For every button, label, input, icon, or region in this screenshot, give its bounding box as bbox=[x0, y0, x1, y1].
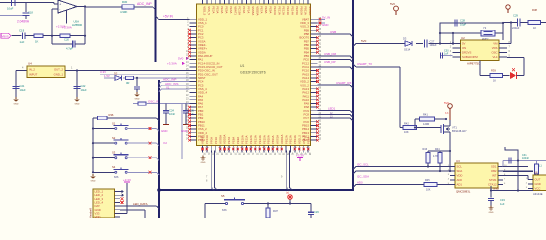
svg-text:PB13A: PB13A bbox=[289, 135, 293, 144]
svg-text:QMC5883L: QMC5883L bbox=[456, 190, 471, 194]
svg-text:PE9A: PE9A bbox=[236, 137, 240, 144]
svg-text:LM8500: LM8500 bbox=[72, 23, 83, 27]
svg-text:USB_DM: USB_DM bbox=[324, 52, 337, 56]
svg-text:C26: C26 bbox=[314, 210, 319, 214]
wire regulator output bbox=[65, 67, 193, 72]
capacitor C23 and ground bbox=[134, 78, 140, 101]
svg-text:+3.3V: +3.3V bbox=[296, 153, 304, 157]
svg-text:PE13A: PE13A bbox=[286, 6, 290, 15]
resistor R35 key pullup bbox=[93, 113, 159, 121]
svg-text:PE8A: PE8A bbox=[264, 6, 268, 13]
svg-text:VSS5A: VSS5A bbox=[251, 6, 255, 15]
svg-text:VDD: VDD bbox=[95, 215, 101, 218]
net label 1.5V bbox=[104, 74, 110, 78]
wire LED_DATA row bbox=[120, 202, 159, 209]
MCU top pins bbox=[203, 0, 313, 16]
ground at C33 bbox=[488, 206, 493, 214]
svg-text:R45: R45 bbox=[425, 179, 430, 182]
ground at C21 bbox=[13, 97, 18, 105]
svg-text:PE8A: PE8A bbox=[232, 137, 236, 144]
svg-text:5V0: 5V0 bbox=[361, 39, 367, 43]
svg-text:VDD5A: VDD5A bbox=[255, 6, 259, 15]
power flag top right bbox=[506, 5, 510, 13]
svg-text:X1: X1 bbox=[166, 86, 170, 90]
svg-text:PE7A: PE7A bbox=[260, 6, 264, 13]
wire op-amp -input bbox=[52, 9, 58, 44]
svg-text:PE2A: PE2A bbox=[211, 6, 215, 13]
svg-text:AIP8775C: AIP8775C bbox=[467, 62, 480, 66]
svg-text:ADC_INP: ADC_INP bbox=[137, 2, 152, 6]
svg-text:-: - bbox=[59, 8, 60, 12]
svg-text:(x): (x) bbox=[286, 192, 289, 195]
svg-text:U1: U1 bbox=[240, 64, 245, 68]
svg-text:PE14A: PE14A bbox=[258, 135, 262, 144]
svg-text:PF1A: PF1A bbox=[214, 137, 218, 144]
svg-text:OSC: OSC bbox=[491, 51, 497, 55]
MCU bottom pins bbox=[201, 135, 311, 156]
port VBUS bbox=[1, 33, 22, 38]
label under U6 bbox=[533, 192, 543, 196]
svg-text:K2: K2 bbox=[164, 141, 168, 145]
svg-text:PE15A: PE15A bbox=[262, 135, 266, 144]
MCU U1 body bbox=[197, 4, 311, 146]
svg-text:AD0: AD0 bbox=[457, 178, 463, 182]
capacitor C22 10uF output bbox=[74, 71, 87, 98]
op-amp U5A bbox=[58, 0, 77, 24]
wire connector row6 bbox=[120, 210, 145, 219]
wire row3 to MCU bbox=[159, 86, 190, 92]
svg-text:R38: R38 bbox=[532, 8, 537, 12]
ground below MCU bbox=[200, 156, 205, 164]
resistor R31 1K bbox=[34, 34, 53, 44]
svg-text:GND: GND bbox=[201, 162, 206, 164]
svg-text:OSC_IN: OSC_IN bbox=[148, 99, 159, 103]
svg-text:S3: S3 bbox=[112, 151, 116, 155]
svg-text:PE3A: PE3A bbox=[216, 6, 220, 13]
wire 3.3V rail to MCU bbox=[100, 73, 193, 75]
svg-text:C21: C21 bbox=[20, 84, 25, 88]
svg-text:VBAT1: VBAT1 bbox=[201, 135, 205, 144]
svg-text:AD0: AD0 bbox=[357, 180, 363, 184]
svg-text:1K: 1K bbox=[533, 26, 536, 30]
wire USART_TX through bus bbox=[318, 62, 401, 70]
capacitor C27 100uF bbox=[425, 39, 437, 47]
ground at C22 bbox=[74, 97, 79, 105]
svg-text:5V: 5V bbox=[462, 42, 466, 46]
net label ADC_INP left bbox=[163, 78, 176, 82]
svg-text:6X6: 6X6 bbox=[222, 208, 227, 212]
power +3.3V connector bbox=[123, 178, 131, 182]
svg-text:PE12A: PE12A bbox=[249, 135, 253, 144]
MCU left pins bbox=[186, 17, 223, 142]
power flag 5V0 top bbox=[390, 2, 398, 15]
svg-text:VDD: VDD bbox=[457, 174, 463, 178]
wire bottom reset row bbox=[205, 202, 311, 219]
svg-text:10uF: 10uF bbox=[20, 88, 26, 92]
capacitor C28 10pF bbox=[455, 19, 467, 27]
svg-text:10uF: 10uF bbox=[7, 7, 14, 11]
svg-text:R44: R44 bbox=[435, 148, 440, 151]
svg-text:1uF: 1uF bbox=[444, 53, 449, 56]
svg-text:10K: 10K bbox=[426, 188, 431, 191]
connector P2 bbox=[89, 189, 121, 219]
power label 5V0 at bus1 bbox=[178, 57, 189, 61]
wire key common vertical bbox=[92, 118, 94, 173]
svg-text:C28: C28 bbox=[460, 19, 465, 23]
pullup rail bbox=[428, 150, 451, 152]
wire USART_RX to bus bbox=[318, 81, 354, 88]
LED D4 bbox=[507, 58, 524, 80]
wire connector row7 +3.3V bbox=[120, 183, 127, 213]
svg-text:VT1: VT1 bbox=[452, 125, 457, 129]
net label 2.048VA bbox=[17, 19, 30, 23]
wire LED row bbox=[480, 61, 510, 76]
svg-text:BSS138-A07: BSS138-A07 bbox=[452, 130, 467, 133]
wire OSC branch down bbox=[181, 104, 183, 160]
capacitor C20 4.7pF feedback bbox=[52, 38, 85, 51]
bus horizontal bottom bbox=[157, 188, 354, 192]
svg-text:10uF: 10uF bbox=[81, 88, 87, 92]
resistor R40 120R bbox=[415, 113, 447, 128]
wire MCU bottom pair left to bus bbox=[206, 151, 218, 191]
svg-text:R37: R37 bbox=[273, 209, 278, 213]
IC U3 QMC5883L bbox=[448, 159, 507, 194]
svg-text:R39: R39 bbox=[491, 69, 496, 73]
svg-text:AD1: AD1 bbox=[457, 183, 463, 187]
power port GND at U3 bbox=[493, 187, 499, 191]
resistor R38 1K bbox=[528, 8, 541, 30]
svg-text:VDD_5: VDD_5 bbox=[298, 135, 302, 144]
svg-text:GND: GND bbox=[535, 182, 541, 186]
capacitor C24 10nF bbox=[163, 104, 175, 118]
svg-text:PE2A: PE2A bbox=[306, 137, 310, 144]
wire mosfet source down bbox=[449, 140, 451, 172]
switch S5 reset bbox=[221, 194, 245, 212]
IC U2 AIP8775C bbox=[450, 36, 511, 66]
svg-text:VCC: VCC bbox=[535, 187, 541, 191]
svg-text:D2: D2 bbox=[114, 72, 118, 76]
svg-text:10K: 10K bbox=[404, 130, 409, 134]
svg-text:VDD1A: VDD1A bbox=[280, 135, 284, 144]
svg-text:10pF: 10pF bbox=[460, 22, 466, 26]
svg-text:GND: GND bbox=[161, 129, 167, 133]
svg-text:PF1A: PF1A bbox=[247, 6, 251, 13]
svg-text:U6: U6 bbox=[534, 171, 538, 175]
power flag 5V0 mosfet bbox=[444, 101, 452, 120]
svg-text:5V0: 5V0 bbox=[390, 2, 395, 6]
net label GND right bbox=[318, 22, 329, 27]
svg-text:LED_DATA: LED_DATA bbox=[133, 202, 148, 206]
svg-text:4.7K: 4.7K bbox=[433, 155, 438, 158]
svg-text:C24: C24 bbox=[169, 109, 174, 113]
svg-text:PE10A: PE10A bbox=[273, 6, 277, 15]
svg-text:S1: S1 bbox=[112, 121, 116, 125]
wire U2 pin8 up bbox=[507, 23, 511, 44]
svg-text:120R: 120R bbox=[423, 122, 429, 126]
svg-text:PE5A: PE5A bbox=[225, 6, 229, 13]
svg-text:I2C_SCL: I2C_SCL bbox=[357, 162, 369, 166]
svg-text:A3144E: A3144E bbox=[533, 192, 543, 196]
resistor R45 10K bbox=[424, 179, 437, 191]
svg-text:INT: INT bbox=[492, 174, 497, 178]
switch footprint label 6X6 bbox=[114, 176, 119, 179]
wire LED2 to bus bbox=[318, 113, 354, 117]
svg-text:+3.3VA: +3.3VA bbox=[62, 26, 72, 30]
svg-text:R43: R43 bbox=[423, 148, 428, 151]
wire USB to bus bbox=[318, 30, 354, 37]
wire ADC_INP to MCU bbox=[159, 82, 190, 85]
bus vertical left upper bbox=[154, 0, 156, 62]
capacitor C33 1uF bbox=[488, 186, 506, 206]
svg-text:GND: GND bbox=[493, 187, 499, 191]
svg-text:R36: R36 bbox=[109, 113, 114, 117]
svg-text:C19: C19 bbox=[19, 28, 25, 32]
svg-text:GND: GND bbox=[91, 180, 96, 182]
wire top rail right of U3 bbox=[503, 159, 546, 166]
svg-text:5V0: 5V0 bbox=[178, 57, 184, 61]
crystal Y2 bbox=[481, 26, 495, 41]
svg-text:USB: USB bbox=[330, 30, 336, 34]
bus vertical left lower bbox=[158, 80, 160, 219]
capacitor C29 220uF bbox=[512, 13, 520, 30]
svg-text:VSS5A: VSS5A bbox=[218, 135, 222, 144]
resistor R32 feedback bbox=[52, 34, 86, 38]
svg-text:C33: C33 bbox=[500, 198, 505, 202]
svg-text:PC13A: PC13A bbox=[238, 6, 242, 15]
wire output to ADC bbox=[85, 7, 156, 10]
svg-text:1uF: 1uF bbox=[500, 202, 505, 206]
red power port bottom bbox=[286, 192, 292, 204]
wire VM rail bbox=[503, 21, 546, 23]
wire LED1 to bus bbox=[318, 107, 354, 114]
net label 3.3V bbox=[100, 70, 106, 74]
svg-text:GND: GND bbox=[322, 23, 328, 27]
net label KEY right of bus bbox=[164, 141, 168, 145]
svg-text:VDS: VDS bbox=[492, 46, 498, 50]
svg-text:U3: U3 bbox=[456, 159, 460, 163]
wire 5V_IN from bus to MCU bbox=[156, 16, 190, 19]
wire USB_DP to bus bbox=[318, 60, 354, 65]
svg-text:GND: GND bbox=[14, 103, 19, 105]
svg-text:C29: C29 bbox=[513, 13, 518, 17]
capacitor C18 bbox=[23, 11, 34, 20]
svg-text:SD1: SD1 bbox=[491, 165, 497, 169]
wire LED3 to bus bbox=[318, 117, 354, 121]
svg-text:U2: U2 bbox=[461, 36, 465, 40]
svg-text:100uF: 100uF bbox=[430, 44, 438, 47]
svg-text:PE11A: PE11A bbox=[277, 6, 281, 15]
svg-text:VSS1A: VSS1A bbox=[308, 6, 312, 15]
power port GND at C25 bbox=[181, 117, 189, 133]
svg-text:PE10A: PE10A bbox=[240, 135, 244, 144]
svg-text:100nF: 100nF bbox=[522, 157, 530, 160]
svg-text:1K: 1K bbox=[493, 80, 496, 83]
svg-text:VDD_5: VDD_5 bbox=[203, 6, 207, 15]
svg-text:IN_2: IN_2 bbox=[29, 68, 35, 72]
svg-text:220uF: 220uF bbox=[512, 26, 520, 30]
capacitor C19 1uF bbox=[19, 28, 34, 43]
svg-text:R42: R42 bbox=[404, 121, 409, 125]
svg-text:VM: VM bbox=[493, 42, 498, 46]
svg-text:PB10A: PB10A bbox=[299, 6, 303, 15]
svg-text:ON: ON bbox=[462, 46, 466, 50]
svg-text:+5V IN: +5V IN bbox=[163, 15, 174, 19]
diode D3 bbox=[403, 37, 412, 52]
svg-text:PE11A: PE11A bbox=[245, 135, 249, 144]
wire AD0 bbox=[353, 180, 455, 187]
switch S3 bbox=[92, 151, 159, 161]
svg-text:PC13A: PC13A bbox=[205, 135, 209, 144]
switch S4 bbox=[92, 165, 159, 175]
svg-text:C18: C18 bbox=[28, 11, 33, 15]
wire U3 gnd row bbox=[490, 189, 533, 191]
svg-text:5V0: 5V0 bbox=[444, 101, 449, 105]
resistor R43 4.7K bbox=[423, 148, 439, 168]
svg-text:S5: S5 bbox=[221, 194, 225, 198]
svg-text:USART_TX: USART_TX bbox=[357, 62, 372, 66]
power label +3.3VA at bus1 bbox=[167, 62, 185, 66]
resistor R39 1K LED bbox=[490, 69, 503, 83]
wire 5V0 row bbox=[353, 42, 454, 46]
MOSFET VT1 BSS138 bbox=[441, 120, 467, 140]
resistor R42 10K gate bbox=[400, 121, 441, 134]
resistor R34 OSC bbox=[133, 102, 193, 105]
svg-text:PB11A: PB11A bbox=[304, 6, 308, 15]
svg-text:DR2VS: DR2VS bbox=[462, 51, 471, 55]
svg-text:VSS_5: VSS_5 bbox=[302, 135, 306, 144]
svg-text:Y2: Y2 bbox=[483, 26, 487, 30]
svg-text:GND: GND bbox=[75, 103, 80, 105]
svg-text:GND: GND bbox=[135, 98, 140, 100]
svg-text:PE12A: PE12A bbox=[282, 6, 286, 15]
net label ADC_INP bbox=[137, 2, 152, 6]
switch S1 bbox=[92, 121, 159, 131]
capacitor C31 100nF bbox=[509, 154, 530, 164]
svg-text:OUT: OUT bbox=[535, 178, 541, 182]
svg-text:USB_DP: USB_DP bbox=[324, 60, 336, 64]
wire MCU bottom pair right to bus bbox=[281, 151, 293, 191]
svg-text:R41: R41 bbox=[423, 113, 428, 117]
wire lower-left bbox=[0, 15, 23, 17]
svg-text:PE6A: PE6A bbox=[229, 6, 233, 13]
net label OSC_IN bbox=[148, 99, 159, 103]
svg-text:U4: U4 bbox=[28, 62, 32, 66]
capacitor C26 bottom bbox=[308, 204, 319, 219]
net label +5V_IN bbox=[163, 15, 174, 19]
svg-text:SDA: SDA bbox=[457, 169, 463, 173]
svg-text:VBUS: VBUS bbox=[2, 34, 9, 38]
wire I2C_SCL bbox=[353, 162, 455, 169]
svg-text:USART_RX: USART_RX bbox=[336, 81, 351, 85]
svg-text:1uF: 1uF bbox=[20, 40, 25, 44]
wire U3 to U6 row1 bbox=[503, 166, 528, 168]
svg-text:+: + bbox=[59, 2, 61, 6]
wire USART vertical bbox=[399, 67, 401, 128]
resistor R44 4.7K bbox=[435, 148, 442, 172]
diode D2 bbox=[114, 72, 122, 81]
power +3.3V below MCU bbox=[296, 153, 304, 161]
svg-text:GD32F150C8T6: GD32F150C8T6 bbox=[240, 70, 266, 74]
svg-text:VSS_5: VSS_5 bbox=[207, 6, 211, 15]
switch S2 bbox=[92, 136, 159, 146]
svg-text:VSS1A: VSS1A bbox=[276, 135, 280, 144]
svg-text:SUBLDOPM: SUBLDOPM bbox=[462, 55, 478, 59]
capacitor C30 at U2 bbox=[440, 49, 453, 58]
voltage regulator U4 bbox=[27, 62, 65, 78]
net label 2.5VA bbox=[56, 25, 66, 29]
svg-text:+3.3VA: +3.3VA bbox=[167, 62, 177, 66]
power port GND at C24 bbox=[161, 117, 169, 133]
wire op-amp output bbox=[77, 5, 86, 44]
svg-text:PF0A: PF0A bbox=[242, 6, 246, 13]
net label 5V0 bbox=[361, 39, 367, 43]
op-amp label U5A LM8500 bbox=[72, 19, 83, 27]
resistor R37 vertical bbox=[266, 204, 278, 219]
wire to cap node bbox=[25, 3, 27, 13]
wire regulator input bbox=[16, 67, 27, 71]
svg-text:SS14: SS14 bbox=[404, 48, 411, 51]
wire top-left input rail bbox=[0, 2, 54, 4]
connector arrows and no-connects bbox=[120, 190, 124, 204]
svg-text:2.048VA: 2.048VA bbox=[17, 19, 30, 23]
svg-text:R30: R30 bbox=[122, 0, 128, 4]
net label ADC_INS bbox=[165, 82, 178, 86]
svg-text:PB14A: PB14A bbox=[293, 135, 297, 144]
svg-text:I2C_SDA: I2C_SDA bbox=[357, 175, 369, 179]
svg-text:OUT_2: OUT_2 bbox=[54, 68, 63, 72]
svg-text:GND: GND bbox=[489, 212, 494, 214]
capacitor C21 10uF input bbox=[13, 71, 26, 98]
wire op-amp +input bbox=[54, 3, 58, 5]
svg-text:C22: C22 bbox=[81, 84, 86, 88]
svg-text:PE13A: PE13A bbox=[254, 135, 258, 144]
svg-text:PE9A: PE9A bbox=[269, 6, 273, 13]
svg-text:C27: C27 bbox=[430, 39, 435, 43]
svg-text:PE7A: PE7A bbox=[227, 137, 231, 144]
svg-text:0R: 0R bbox=[126, 81, 129, 85]
svg-text:6X6: 6X6 bbox=[114, 176, 119, 179]
svg-text:PF0A: PF0A bbox=[210, 137, 214, 144]
svg-text:S4: S4 bbox=[112, 165, 116, 169]
svg-text:LED1: LED1 bbox=[328, 107, 336, 111]
wire U3 to U6 row2 thick bbox=[503, 170, 533, 172]
wire U3 to U6 row3 bbox=[503, 176, 528, 180]
svg-text:PE14A: PE14A bbox=[291, 6, 295, 15]
net label 3.3VA bbox=[62, 26, 72, 30]
wire 1.5V branch bbox=[104, 77, 193, 79]
svg-text:5V_IN: 5V_IN bbox=[322, 15, 330, 19]
bus vertical right bbox=[352, 0, 354, 191]
capacitor C25 1uF bbox=[183, 104, 194, 118]
svg-text:D3: D3 bbox=[403, 37, 407, 41]
svg-text:PE4A: PE4A bbox=[220, 6, 224, 13]
vertical wire right of U3 bbox=[505, 147, 518, 191]
svg-text:SCL: SCL bbox=[457, 165, 463, 169]
resistor R30 4.99K bbox=[120, 0, 134, 14]
svg-text:10nF: 10nF bbox=[169, 112, 175, 116]
svg-text:S2: S2 bbox=[112, 136, 116, 140]
svg-text:4.99K: 4.99K bbox=[120, 10, 127, 14]
wire crystal loop bbox=[439, 22, 504, 45]
MCU right pins bbox=[300, 17, 322, 142]
svg-text:GND_1: GND_1 bbox=[54, 73, 64, 77]
IC U6 hall sensor partial bbox=[526, 171, 546, 191]
resistor R33 bbox=[126, 76, 134, 85]
svg-text:VL4: VL4 bbox=[493, 55, 498, 59]
svg-text:INPUT: INPUT bbox=[29, 73, 38, 77]
svg-text:PB10A: PB10A bbox=[267, 135, 271, 144]
svg-text:STM1: STM1 bbox=[489, 178, 497, 182]
